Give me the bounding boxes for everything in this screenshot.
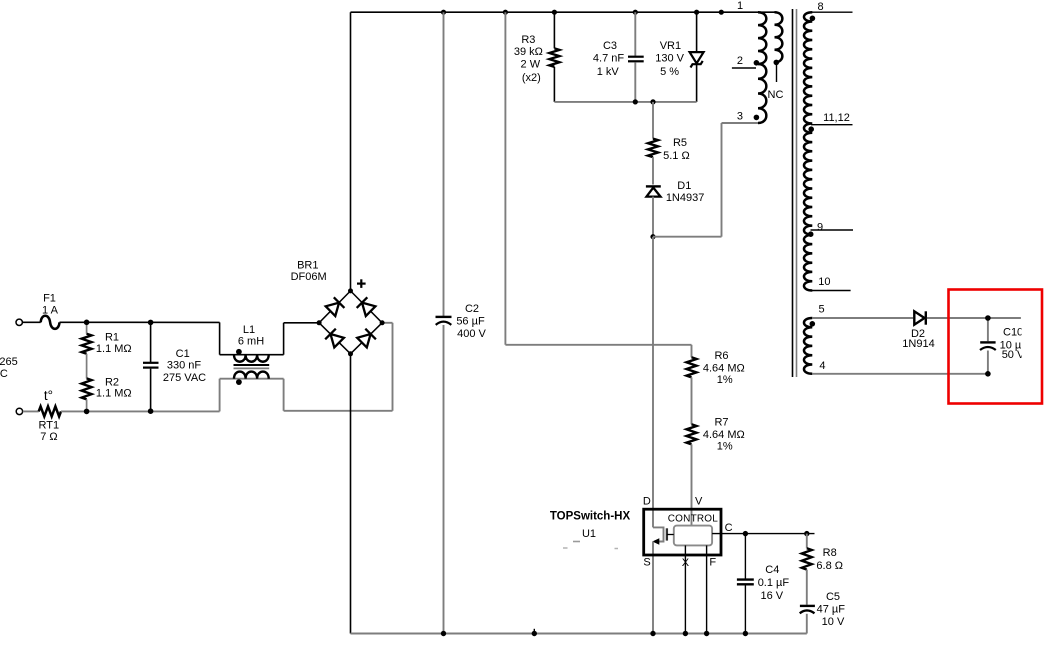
svg-text:t°: t° <box>44 388 53 403</box>
svg-text:5: 5 <box>818 303 824 315</box>
svg-text:S: S <box>643 556 650 568</box>
svg-text:11,12: 11,12 <box>823 112 850 124</box>
svg-text:R1: R1 <box>105 331 119 343</box>
svg-text:4.7 nF: 4.7 nF <box>593 52 624 64</box>
svg-text:8: 8 <box>818 1 824 13</box>
svg-text:9: 9 <box>817 221 823 233</box>
svg-text:2 W: 2 W <box>521 59 541 71</box>
svg-text:39 kΩ: 39 kΩ <box>514 46 543 58</box>
svg-text:R7: R7 <box>714 417 728 429</box>
svg-text:R5: R5 <box>673 137 687 149</box>
svg-text:C5: C5 <box>826 591 840 603</box>
svg-text:85-265: 85-265 <box>0 356 18 368</box>
svg-text:6 mH: 6 mH <box>238 335 264 347</box>
svg-text:F1: F1 <box>43 292 56 304</box>
svg-text:C3: C3 <box>603 40 617 52</box>
svg-text:275 VAC: 275 VAC <box>163 372 206 384</box>
svg-text:U1: U1 <box>582 528 596 540</box>
svg-text:C: C <box>725 522 733 534</box>
svg-text:2: 2 <box>737 55 743 67</box>
svg-text:C1: C1 <box>176 348 190 360</box>
svg-text:CONTROL: CONTROL <box>668 514 719 525</box>
svg-text:0.1 µF: 0.1 µF <box>758 577 790 589</box>
svg-text:10 V: 10 V <box>822 616 845 628</box>
svg-text:C10: C10 <box>1003 326 1023 338</box>
svg-text:R8: R8 <box>823 547 837 559</box>
svg-text:VAC: VAC <box>0 368 8 380</box>
svg-text:TOPSwitch-HX: TOPSwitch-HX <box>550 511 631 523</box>
svg-text:1: 1 <box>737 0 743 12</box>
svg-text:1%: 1% <box>717 441 733 453</box>
svg-text:NC: NC <box>768 89 784 101</box>
svg-text:10: 10 <box>818 276 830 288</box>
svg-text:4.64 MΩ: 4.64 MΩ <box>703 362 745 374</box>
svg-text:F: F <box>709 556 716 568</box>
svg-text:V: V <box>695 495 703 507</box>
svg-text:BR1: BR1 <box>297 259 318 271</box>
svg-text:L1: L1 <box>243 324 255 336</box>
svg-text:RT1: RT1 <box>39 419 60 431</box>
svg-text:D: D <box>643 495 651 507</box>
svg-text:1.1 MΩ: 1.1 MΩ <box>96 343 132 355</box>
svg-text:330 nF: 330 nF <box>167 359 202 371</box>
svg-text:1 kV: 1 kV <box>597 66 620 78</box>
svg-text:16 V: 16 V <box>760 590 783 602</box>
svg-text:C2: C2 <box>465 303 479 315</box>
svg-text:5.1 Ω: 5.1 Ω <box>663 150 690 162</box>
svg-text:5 %: 5 % <box>660 66 679 78</box>
svg-text:4.64 MΩ: 4.64 MΩ <box>703 429 745 441</box>
svg-text:1.1 MΩ: 1.1 MΩ <box>96 387 132 399</box>
svg-text:X: X <box>682 557 690 569</box>
svg-text:130 V: 130 V <box>655 52 684 64</box>
svg-text:R6: R6 <box>714 350 728 362</box>
svg-text:47 µF: 47 µF <box>817 603 846 615</box>
svg-text:50 V: 50 V <box>1002 349 1025 361</box>
svg-text:400 V: 400 V <box>457 328 486 340</box>
svg-text:C4: C4 <box>765 564 779 576</box>
svg-text:1N4937: 1N4937 <box>666 192 705 204</box>
svg-text:1%: 1% <box>717 374 733 386</box>
svg-text:3: 3 <box>737 110 743 122</box>
svg-text:DF06M: DF06M <box>291 271 327 283</box>
svg-text:6.8 Ω: 6.8 Ω <box>816 560 843 572</box>
svg-text:VR1: VR1 <box>660 40 681 52</box>
svg-text:D1: D1 <box>677 180 691 192</box>
svg-text:7 Ω: 7 Ω <box>40 431 57 443</box>
svg-text:(x2): (x2) <box>522 72 541 84</box>
svg-text:R3: R3 <box>521 34 535 46</box>
svg-text:4: 4 <box>819 360 825 372</box>
svg-text:1 A: 1 A <box>42 304 59 316</box>
svg-text:56 µF: 56 µF <box>456 315 485 327</box>
svg-text:1N914: 1N914 <box>902 338 934 350</box>
